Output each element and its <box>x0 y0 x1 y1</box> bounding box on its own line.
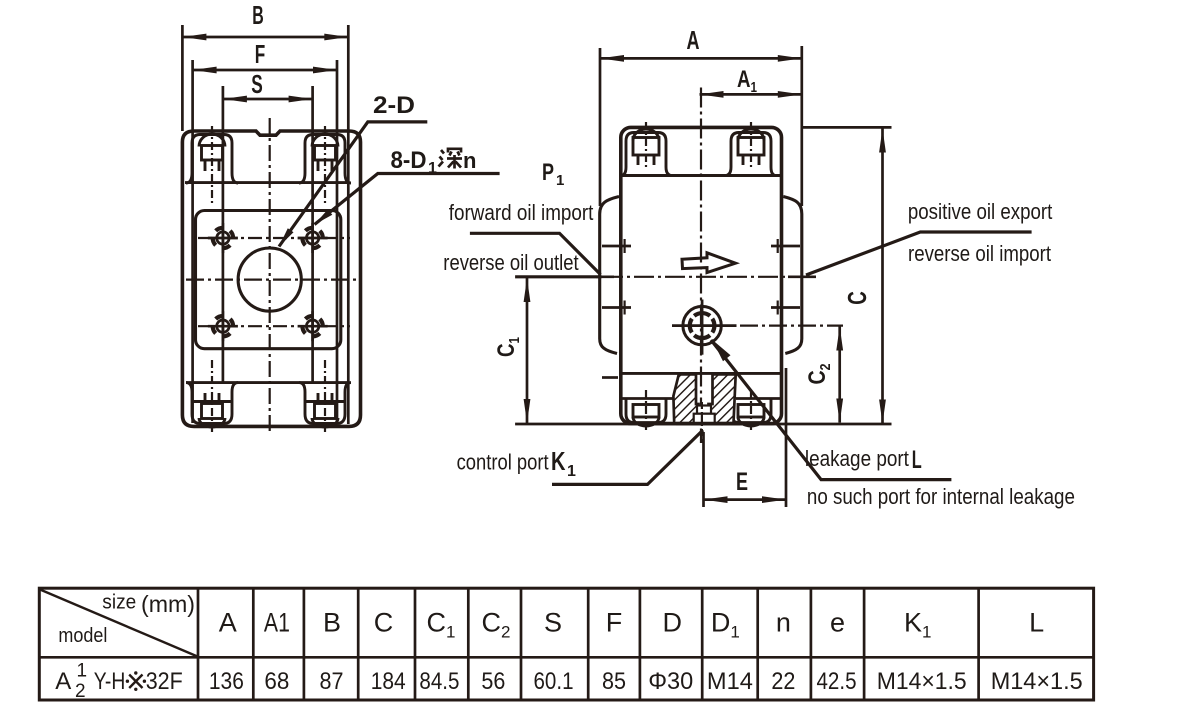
side ticks left edge <box>602 245 631 248</box>
hidden dashes inside right edge <box>777 239 779 253</box>
body outline left view <box>182 131 360 426</box>
dimension E <box>704 498 787 501</box>
dimension C2 <box>838 327 841 423</box>
svg-text:8-D: 8-D <box>391 147 427 174</box>
svg-text:85: 85 <box>602 668 626 695</box>
svg-text:A1: A1 <box>264 608 290 638</box>
data row values <box>209 668 1083 695</box>
dimension A <box>600 57 802 60</box>
svg-text:60.1: 60.1 <box>534 668 574 695</box>
hidden dashes inside left edge <box>623 239 625 253</box>
svg-text:P: P <box>542 159 554 186</box>
bottom ear boss left (right view) <box>626 399 666 427</box>
svg-text:68: 68 <box>264 668 289 695</box>
right side wing <box>783 197 802 354</box>
svg-text:D: D <box>662 608 682 638</box>
top ear dip line <box>185 181 348 184</box>
svg-text:84.5: 84.5 <box>419 668 459 695</box>
svg-text:reverse oil outlet: reverse oil outlet <box>443 250 578 275</box>
hatch block left <box>673 374 698 423</box>
svg-text:B: B <box>323 608 341 638</box>
dimension S <box>223 98 313 101</box>
top ear boss left <box>186 134 238 183</box>
S extension column right <box>311 86 314 382</box>
vertical centerline left view <box>269 118 271 434</box>
svg-text:reverse oil import: reverse oil import <box>908 241 1051 266</box>
svg-text:32F: 32F <box>146 668 183 695</box>
svg-text:e: e <box>830 608 845 638</box>
svg-text:Φ30: Φ30 <box>648 668 693 695</box>
svg-text:184: 184 <box>371 668 406 695</box>
E right extension <box>785 368 788 507</box>
vertical centerline right view <box>700 88 702 444</box>
svg-text:C: C <box>842 291 872 305</box>
ear bolt centerline top-left <box>211 126 213 204</box>
svg-text:S: S <box>544 608 562 638</box>
hatch block right <box>709 374 736 423</box>
svg-text:E: E <box>736 468 748 496</box>
svg-text:leakage port: leakage port <box>805 446 909 471</box>
svg-text:Y-H: Y-H <box>94 668 126 695</box>
K1 port plug <box>694 406 715 424</box>
face bolt hole bottom-left <box>208 311 238 341</box>
face bolt hole top-left <box>208 223 238 253</box>
svg-text:forward oil import: forward oil import <box>449 200 594 225</box>
ear bolt centerline bottom-left <box>211 360 213 433</box>
svg-text:model: model <box>58 625 107 647</box>
svg-text:(mm): (mm) <box>141 591 195 617</box>
bottom ear zone line <box>186 381 348 384</box>
body outline right view <box>621 127 782 423</box>
model designation A 1/2 Y-H*32F <box>55 660 182 701</box>
ear bolt centerline top-right <box>324 126 326 204</box>
port circle inner thread <box>690 313 715 338</box>
svg-text:n: n <box>463 148 476 173</box>
svg-text:136: 136 <box>209 668 244 695</box>
svg-text:M14: M14 <box>707 668 753 695</box>
table outer border <box>39 588 1093 700</box>
svg-text:56: 56 <box>481 668 505 695</box>
svg-text:C: C <box>374 608 394 638</box>
svg-text:M14×1.5: M14×1.5 <box>991 668 1083 695</box>
table header divider <box>39 656 1093 659</box>
dimension C <box>881 129 884 424</box>
S extension column left <box>222 86 225 382</box>
port circle outer <box>683 306 721 344</box>
top ear boss left (right view) <box>621 129 672 176</box>
bottom seat line left part <box>621 397 678 400</box>
svg-text:F: F <box>606 608 623 638</box>
port cross horizontal <box>672 324 737 327</box>
internal vertical line B-right <box>347 25 350 424</box>
svg-text:K: K <box>551 446 566 476</box>
bottom ear boss right <box>299 383 351 427</box>
top ear boss right <box>299 134 351 183</box>
bottom ear boss right (right view) <box>731 399 771 427</box>
svg-text:1: 1 <box>77 660 88 681</box>
B extension line left <box>181 25 184 131</box>
svg-text:size: size <box>102 592 136 614</box>
left side wing <box>600 197 619 354</box>
svg-text:control port: control port <box>457 450 549 475</box>
dimension F <box>193 69 337 72</box>
svg-text:n: n <box>776 608 791 638</box>
svg-text:no such port for internal leak: no such port for internal leakage <box>807 484 1075 509</box>
E left extension <box>702 432 705 507</box>
A extension left <box>599 48 602 206</box>
bottom seat line right part <box>736 397 781 400</box>
bolt row centerline top <box>198 237 350 239</box>
svg-text:87: 87 <box>320 668 344 695</box>
svg-text:1: 1 <box>567 463 576 480</box>
flow direction block arrow <box>682 253 736 273</box>
bolt row centerline bottom <box>198 325 350 327</box>
svg-text:2-D: 2-D <box>373 92 415 119</box>
port centerline extension right <box>740 325 843 327</box>
central circle 2-D <box>238 248 301 311</box>
bottom edge restore <box>676 422 740 426</box>
face bolt hole bottom-right <box>298 311 328 341</box>
horizontal main centerline <box>603 276 818 278</box>
header diagonal <box>40 590 198 657</box>
ear bolt centerlines right view <box>645 122 647 168</box>
top ear dip line right view <box>621 174 781 177</box>
back plate edge below left wing <box>602 376 618 379</box>
dimension C1 <box>526 278 529 423</box>
side ticks right edge <box>771 245 800 248</box>
svg-text:L: L <box>912 446 922 474</box>
bottom extension line <box>515 423 891 426</box>
dimension B <box>182 36 348 39</box>
top ear boss right (right view) <box>725 129 776 176</box>
face bolt hole top-right <box>298 223 328 253</box>
svg-text:M14×1.5: M14×1.5 <box>877 668 967 695</box>
svg-text:S: S <box>251 69 263 99</box>
C top extension <box>803 126 892 129</box>
mounting face square <box>196 211 341 349</box>
internal vertical line F-right <box>336 60 339 423</box>
A extension right <box>800 46 803 206</box>
horizontal centerline circle <box>186 279 356 281</box>
internal vertical line F-left <box>191 60 194 423</box>
dimension A1 <box>700 93 802 96</box>
table column lines <box>198 588 979 701</box>
svg-text:42.5: 42.5 <box>817 668 857 695</box>
svg-text:L: L <box>1029 608 1044 638</box>
center dash overlay <box>701 402 703 443</box>
reference mark glyph <box>126 671 146 691</box>
bottom zone line right view <box>621 372 781 375</box>
ear bolt centerline bottom-right <box>324 360 326 433</box>
svg-text:B: B <box>252 0 264 30</box>
port cross vertical <box>701 300 704 355</box>
svg-text:F: F <box>255 39 266 69</box>
header row letters <box>219 608 1044 642</box>
svg-text:A: A <box>687 25 700 55</box>
bottom ear boss left <box>186 383 238 427</box>
svg-text:positive oil export: positive oil export <box>908 199 1052 224</box>
svg-text:2: 2 <box>75 681 86 702</box>
svg-text:22: 22 <box>771 668 795 695</box>
svg-text:A: A <box>55 668 71 695</box>
svg-text:1: 1 <box>556 172 564 189</box>
svg-text:A: A <box>219 608 237 638</box>
